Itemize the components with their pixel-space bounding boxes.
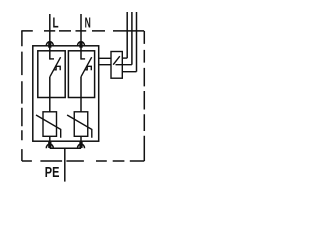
plug-in terminal RV1/PE (pin) xyxy=(48,142,51,148)
disconnector F2 switch blade xyxy=(81,57,92,76)
mechanical link lower xyxy=(99,64,111,66)
plug-in terminal N (arc) xyxy=(78,42,85,46)
contact S1 switch blade xyxy=(113,56,120,64)
wire RV1 to PE bar xyxy=(49,136,51,148)
remote signalling contact box S1 xyxy=(111,52,122,79)
wire S1 NO contact to terminal 14 xyxy=(122,71,136,73)
plug-in terminal RV1/PE (arc) xyxy=(46,144,53,148)
wire PE conductor xyxy=(64,148,66,181)
wire N neutral conductor xyxy=(80,14,82,60)
wire terminal 12 xyxy=(131,12,133,65)
disconnector cell F1 box xyxy=(38,51,65,98)
wire F1 to varistor RV1 xyxy=(49,77,51,112)
plug-in terminal RV2/PE (arc) xyxy=(78,144,85,148)
svg-text:PE: PE xyxy=(45,164,60,181)
varistor RV2 body xyxy=(74,112,88,137)
disconnector F2 fixed contact stub xyxy=(81,58,85,60)
wire terminal 14 xyxy=(136,12,138,72)
enclosure dashed border left xyxy=(21,31,23,161)
plug-in terminal RV2/PE (pin) xyxy=(79,142,82,148)
enclosure dashed border bottom xyxy=(22,160,144,162)
disconnector F1 thermal trip bump xyxy=(54,66,60,70)
wire F2 to varistor RV2 xyxy=(80,77,82,112)
plug-in terminal L (arc) xyxy=(46,42,53,46)
wire S1 common xyxy=(116,64,132,66)
plug-in terminal L (pin) xyxy=(48,42,51,48)
plug-in terminal N (pin) xyxy=(79,42,82,48)
enclosure dashed border top xyxy=(21,30,144,32)
PE bus bar xyxy=(50,147,81,149)
disconnector F2 thermal trip bump xyxy=(85,66,91,70)
varistor RV1 diagonal stroke xyxy=(36,115,61,138)
disconnector F1 fixed contact stub xyxy=(50,58,54,60)
varistor RV2 diagonal stroke xyxy=(67,115,92,138)
enclosure dashed border right xyxy=(143,31,145,161)
wire L phase conductor xyxy=(49,14,51,60)
disconnector F1 switch blade xyxy=(50,57,61,76)
mechanical link upper xyxy=(99,57,111,59)
wire RV2 to PE bar xyxy=(80,136,82,148)
varistor RV1 body xyxy=(43,112,57,137)
disconnector cell F2 box xyxy=(68,51,94,98)
module box (pluggable SPD module outline) xyxy=(33,46,99,141)
svg-text:L: L xyxy=(53,16,59,32)
wire S1 NC contact to terminal 11 xyxy=(122,57,127,59)
svg-text:N: N xyxy=(85,16,91,32)
wire terminal 11 xyxy=(126,12,128,58)
